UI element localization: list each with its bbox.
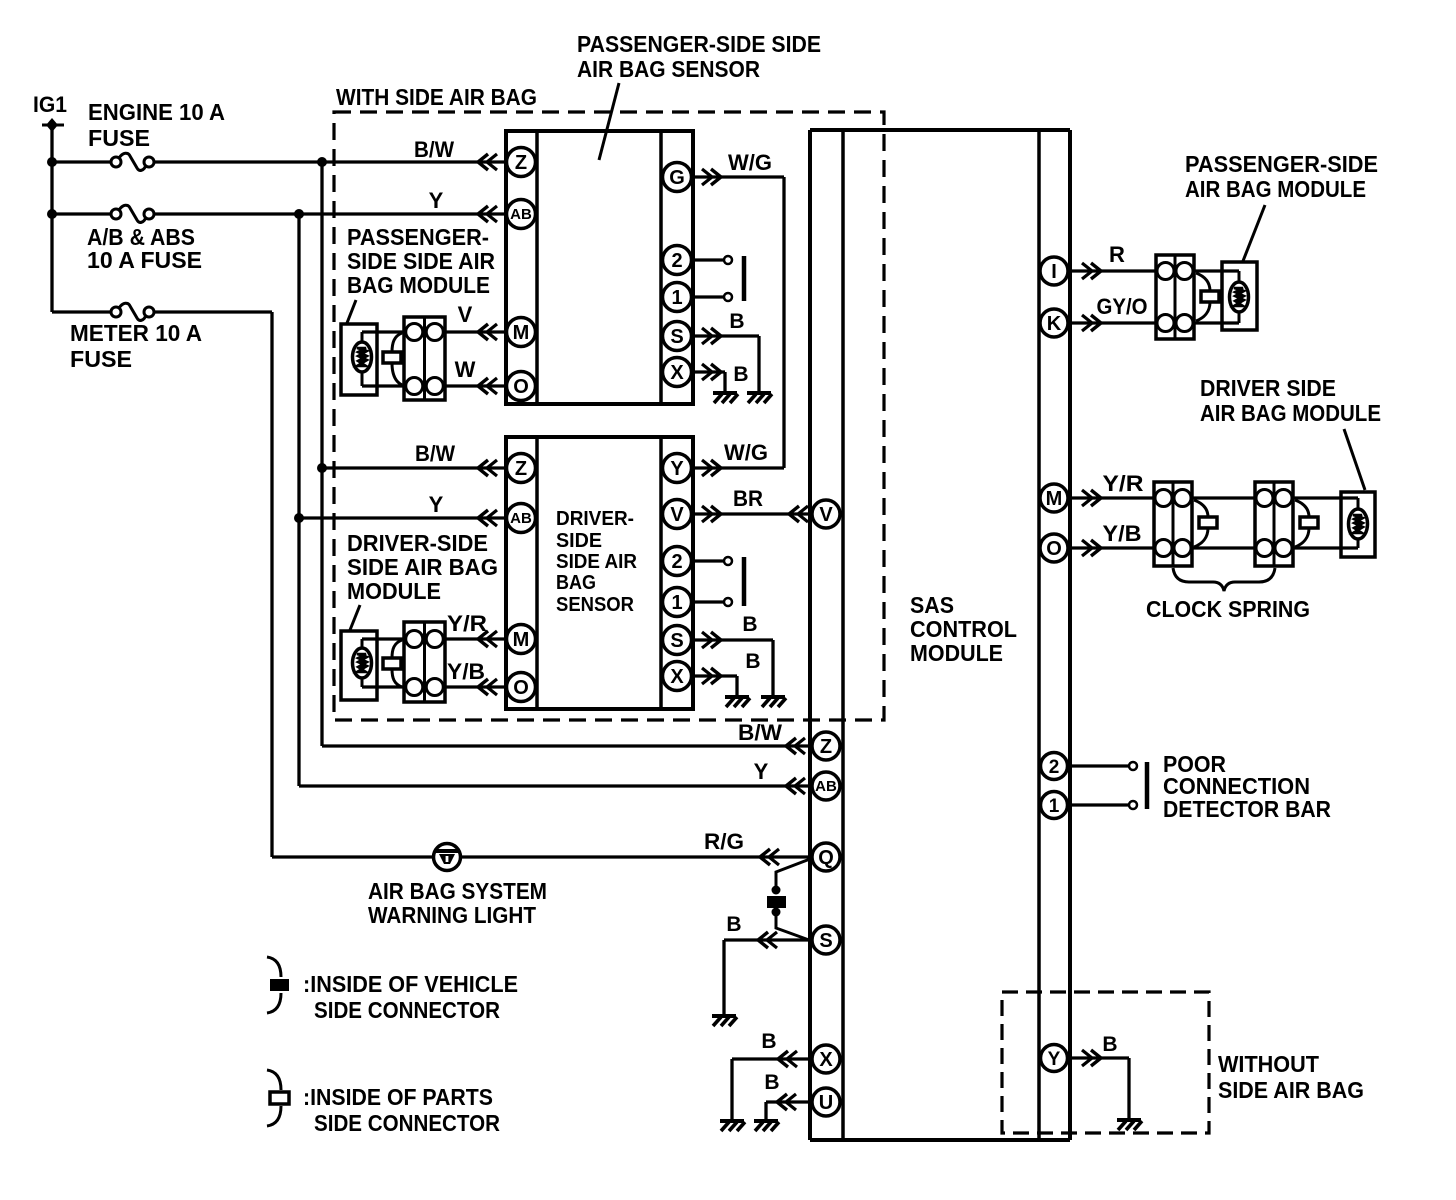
svg-text:Y/B: Y/B [1103,521,1142,546]
label wire R/G [704,829,744,854]
pin O SAS [1040,534,1068,562]
svg-text:B: B [761,1030,776,1053]
pin V driver sensor [663,500,692,529]
pin V SAS [812,500,840,528]
detector bar passenger sensor [742,256,747,301]
wire to driver air bag module bottom [1293,546,1358,549]
connector driver module [404,622,445,702]
SAS control module outline [810,130,1070,1140]
label wire W/G driver [724,440,768,465]
node IG1 terminal [42,118,64,132]
svg-text:SIDE SIDE AIR: SIDE SIDE AIR [347,248,495,274]
svg-text:IG1: IG1 [33,92,67,117]
pin S passenger sensor [663,322,692,351]
svg-text:Y/R: Y/R [1103,471,1144,496]
svg-text:V: V [670,504,684,526]
svg-text:METER 10 A: METER 10 A [70,320,202,346]
svg-text:O: O [1046,538,1062,560]
label wire B SAS Y [1102,1033,1117,1056]
label POOR CONNECTION DETECTOR BAR [1163,751,1331,822]
wire RG row right of lamp [460,855,812,858]
wire ab fuse row left [52,212,112,215]
wire SAS M to clock spring [1069,496,1154,499]
pin AB driver sensor [507,504,536,533]
svg-text:Q: Q [818,847,834,869]
driver module box [341,631,377,700]
label A/B & ABS 10 A FUSE [87,224,202,273]
arrow out of SAS O [1082,540,1101,556]
wire WG vertical [782,177,785,468]
label wire BR [733,486,763,511]
pin S driver sensor [663,626,692,655]
svg-text:ENGINE 10 A: ENGINE 10 A [88,99,225,125]
svg-text:G: G [669,167,685,189]
wire connector to sensor O [445,384,506,387]
wire engine fuse row left [52,160,112,163]
svg-text:MODULE: MODULE [347,578,441,604]
arrow into driver sensor M [478,631,497,647]
parts connector symbol driver module [383,640,402,687]
wire SAS I to connector [1069,269,1156,272]
fuse ENGINE 10 A [111,153,154,170]
wire ab fuse row to sensor AB [153,212,506,215]
svg-text:B: B [733,363,748,386]
wire passenger S to ground [691,336,759,392]
label wire R [1109,242,1125,267]
svg-text:SAS: SAS [910,592,954,618]
svg-text:SIDE CONNECTOR: SIDE CONNECTOR [314,1110,500,1136]
label PASSENGER-SIDE AIR BAG MODULE right [1185,151,1378,202]
label wire B driver S [742,613,757,636]
ground passenger S [747,393,772,403]
svg-text:MODULE: MODULE [910,640,1003,666]
pin G passenger sensor [663,163,692,192]
svg-text:AIR BAG SENSOR: AIR BAG SENSOR [577,56,760,82]
wire bw to driver sensor Z [322,466,506,469]
wire connector to driver sensor M [445,637,506,640]
pin 2 SAS [1041,753,1068,780]
label SAS CONTROL MODULE [910,592,1017,666]
svg-text:CONTROL: CONTROL [910,616,1017,642]
arrow out of driver Y [702,460,721,476]
label ENGINE 10 A FUSE [88,99,225,151]
svg-text:Z: Z [515,152,527,174]
detector bar SAS [1145,762,1150,809]
svg-text:W/G: W/G [724,440,768,465]
clock spring connector 2 [1255,482,1293,566]
svg-text:CLOCK SPRING: CLOCK SPRING [1146,596,1310,622]
brace clock spring [1173,568,1275,591]
ground passenger X [713,393,738,403]
svg-text:BR: BR [733,486,763,511]
vehicle connector symbol QS [767,896,786,908]
wire engine fuse row to sensor Z [153,160,506,163]
svg-text:U: U [819,1092,833,1114]
svg-text:PASSENGER-: PASSENGER- [347,224,489,250]
wire clock spring link top [1192,496,1255,499]
svg-text:DETECTOR BAR: DETECTOR BAR [1163,796,1331,822]
pin AB passenger sensor [507,200,536,229]
label DRIVER-SIDE SIDE AIR BAG SENSOR inside [556,508,638,616]
wire driver V to SAS V [691,512,812,515]
clock spring connector 1 [1154,482,1192,566]
pin Y SAS [1041,1045,1068,1072]
junction dot ab row x299 [294,209,304,219]
svg-text:SIDE: SIDE [556,530,602,552]
svg-text:S: S [670,326,683,348]
arrow into SAS AB [786,778,805,794]
junction dot engine row x322 [317,157,327,167]
svg-text:B: B [1102,1033,1117,1056]
label wire Y row2 [429,188,444,213]
connector passenger air bag module [1156,255,1194,339]
svg-text:Z: Z [515,458,527,480]
svg-text:X: X [670,666,684,688]
pin O driver sensor [507,673,536,702]
svg-text:BAG: BAG [556,572,596,594]
arrow into passenger sensor Z [478,154,497,170]
wire driver Y to WG vertical [691,466,784,469]
svg-text:AIR BAG SYSTEM: AIR BAG SYSTEM [368,878,547,904]
arrow out of driver S [702,632,721,648]
wire SAS 1 stub [1067,801,1137,809]
svg-text:R: R [1109,242,1125,267]
svg-text:M: M [513,629,530,651]
svg-text:2: 2 [1049,757,1060,778]
pin 2 passenger sensor [663,246,692,275]
svg-text:O: O [513,376,529,398]
svg-text:1: 1 [671,592,682,614]
wire driver S to ground [691,640,773,695]
label wire V [458,302,473,327]
svg-text:Y: Y [429,188,444,213]
label wire B SAS S [726,913,741,936]
wire passenger 2 stub [691,256,732,264]
pin Z passenger sensor [507,148,536,177]
svg-text:B/W: B/W [738,720,782,745]
label wire Y/R left [447,611,487,636]
svg-text:SIDE AIR BAG: SIDE AIR BAG [347,554,498,580]
wire driver squib bottom to connector [362,685,404,688]
power node IG1 label [33,92,67,117]
svg-text:SIDE AIR BAG: SIDE AIR BAG [1218,1077,1364,1103]
svg-text:Y: Y [429,492,444,517]
svg-text:Y/B: Y/B [447,659,485,684]
arrow into SAS Z [786,738,805,754]
svg-text:AB: AB [815,778,837,795]
arrow into SAS S [758,932,777,948]
label DRIVER-SIDE SIDE AIR BAG MODULE [347,530,498,604]
pin X passenger sensor [663,358,692,387]
wire to driver air bag module top [1293,496,1358,499]
parts connector symbol passenger module [383,333,402,385]
parts connector symbol cs1 [1194,500,1217,547]
svg-text:AIR BAG MODULE: AIR BAG MODULE [1200,400,1381,426]
svg-text:M: M [1046,488,1063,510]
label wire GY/O [1097,294,1148,319]
junction dot IG1-engine [47,157,57,167]
pin M passenger sensor [507,318,536,347]
label wire Y row6 [754,759,769,784]
wire SAS 2 stub [1067,762,1137,770]
wire driver 1 stub [691,598,732,606]
svg-text:DRIVER SIDE: DRIVER SIDE [1200,375,1336,401]
pin Z driver sensor [507,454,536,483]
label wire B passenger X [733,363,748,386]
svg-text:PASSENGER-SIDE SIDE: PASSENGER-SIDE SIDE [577,31,821,57]
label wire B driver X [745,650,760,673]
svg-text:V: V [819,504,833,526]
arrow into SAS V [789,506,808,522]
arrow into driver sensor Z [478,460,497,476]
svg-text:Y: Y [670,458,684,480]
svg-text:B: B [742,613,757,636]
pin S SAS [812,926,840,954]
svg-text:Y: Y [754,759,769,784]
svg-text:GY/O: GY/O [1097,294,1148,319]
wire driver 2 stub [691,557,732,565]
dashed box WITHOUT SIDE AIR BAG [1002,992,1209,1133]
wire passenger X to ground [691,372,725,392]
svg-text:10 A FUSE: 10 A FUSE [87,247,202,273]
ground SAS Y [1117,1120,1142,1130]
wire SAS X to ground [732,1059,812,1119]
wire squib bottom to connector [362,384,404,387]
wire SAS U to ground [766,1102,812,1119]
svg-text:B/W: B/W [414,137,454,162]
svg-text::INSIDE OF PARTS: :INSIDE OF PARTS [303,1084,493,1110]
label WITHOUT SIDE AIR BAG [1218,1051,1364,1103]
dashed box WITH SIDE AIR BAG [334,112,884,720]
svg-text:O: O [513,677,529,699]
svg-text:DRIVER-: DRIVER- [556,508,634,530]
svg-text:1: 1 [1049,796,1060,817]
svg-text:PASSENGER-SIDE: PASSENGER-SIDE [1185,151,1378,177]
wire G to WG vertical [691,175,784,178]
svg-text:I: I [1051,261,1057,283]
label wire B SAS U [764,1071,779,1094]
wire SAS K to connector [1069,321,1156,324]
callout line passenger module [347,300,356,323]
arrow out of passenger S [702,328,721,344]
svg-text:B: B [726,913,741,936]
wire meter fuse row left [52,310,112,313]
passenger air bag module box [1222,262,1257,330]
svg-text:SIDE AIR: SIDE AIR [556,551,638,573]
callout line passenger air bag module [1243,205,1265,261]
svg-text:WARNING LIGHT: WARNING LIGHT [368,902,536,928]
pin U SAS [812,1088,840,1116]
ground SAS X [720,1121,745,1131]
svg-text:FUSE: FUSE [88,125,150,151]
squib passenger module [353,332,372,386]
detector bar driver sensor [742,557,747,606]
svg-text:V: V [458,302,473,327]
legend parts side connector symbol [267,1070,289,1126]
wire driver squib top to connector [362,637,404,640]
junction dot y driver row [294,513,304,523]
svg-text:AIR BAG MODULE: AIR BAG MODULE [1185,176,1366,202]
svg-text:Y: Y [1048,1049,1061,1070]
squib driver module [353,639,372,687]
junction dot above vehicle connector [772,886,781,895]
parts connector symbol pab [1196,273,1219,321]
pin 1 SAS [1041,792,1068,819]
label wire B passenger S [729,310,744,333]
label INSIDE OF VEHICLE SIDE CONNECTOR [303,971,518,1023]
svg-text:S: S [819,930,832,952]
wire connector to sensor M [445,330,506,333]
lamp air bag warning light [434,844,461,871]
label wire W/G passenger [728,150,772,175]
arrow out of driver V [702,506,721,522]
label wire B SAS X [761,1030,776,1053]
label wire B/W row3 [415,441,455,466]
junction dot bw driver row [317,463,327,473]
label DRIVER SIDE AIR BAG MODULE [1200,375,1381,426]
svg-text:WITH SIDE AIR BAG: WITH SIDE AIR BAG [336,84,537,110]
svg-text:WITHOUT: WITHOUT [1218,1051,1319,1077]
svg-text:DRIVER-SIDE: DRIVER-SIDE [347,530,488,556]
arrow out of driver X [702,668,721,684]
ground SAS S [712,1016,737,1026]
pin X driver sensor [663,662,692,691]
ground SAS U [754,1121,779,1131]
pin M SAS [1040,484,1068,512]
arrow into driver sensor O [478,679,497,695]
pin Z SAS [812,732,840,760]
svg-text:1: 1 [671,287,682,309]
pin Q SAS [812,843,840,871]
label AIR BAG SYSTEM WARNING LIGHT [368,878,547,928]
label wire Y/B left [447,659,485,684]
svg-text:FUSE: FUSE [70,346,132,372]
pin 1 driver sensor [663,588,692,617]
passenger side air bag sensor box [506,131,693,404]
wire Q diagonal to connector [776,859,810,886]
pin K SAS [1040,309,1068,337]
label wire W [455,357,476,382]
label wire Y row5 [429,492,444,517]
pin O passenger sensor [507,372,536,401]
wire connector to S diagonal [776,913,809,940]
wire clock spring link bottom [1192,546,1255,549]
pin 2 driver sensor [663,547,692,576]
svg-text:X: X [670,362,684,384]
label wire B/W row4 [738,720,782,745]
arrow into driver sensor AB [478,510,497,526]
svg-text:X: X [819,1049,833,1071]
connector passenger module [404,317,445,400]
junction dot IG1-ab [47,209,57,219]
svg-text:B: B [764,1071,779,1094]
wire y feeder vertical x299 [297,214,300,786]
arrow out of SAS I [1082,263,1101,279]
label WITH SIDE AIR BAG [336,84,537,110]
svg-text:2: 2 [671,551,682,573]
parts connector symbol cs2 [1295,500,1318,547]
driver air bag module box [1341,492,1375,557]
callout line sensor label [599,83,619,160]
svg-text:BAG MODULE: BAG MODULE [347,272,490,298]
pin I SAS [1040,257,1068,285]
driver side air bag sensor box [506,437,693,709]
wire RG row left of lamp [272,855,434,858]
arrow into SAS Q [760,849,779,865]
wire SAS S to ground [724,940,812,1014]
legend vehicle side connector symbol [267,957,289,1013]
passenger module box [341,324,377,395]
svg-text:M: M [513,322,530,344]
arrow out of G [702,169,721,185]
arrow out of passenger X [702,364,721,380]
svg-text:2: 2 [671,250,682,272]
svg-text:AB: AB [510,510,532,527]
ground driver S [761,697,786,707]
wire meter fuse row to corner [153,310,272,313]
arrow out of SAS Y [1082,1050,1101,1066]
label PASSENGER-SIDE SIDE AIR BAG MODULE [347,224,495,298]
svg-text:Y/R: Y/R [447,611,487,636]
wire y to driver sensor AB [299,516,506,519]
label METER 10 A FUSE [70,320,202,372]
svg-text:B: B [745,650,760,673]
label PASSENGER-SIDE SIDE AIR BAG SENSOR [577,31,821,82]
svg-text:B: B [729,310,744,333]
pin X SAS [812,1045,840,1073]
wire connector to driver sensor O [445,685,506,688]
svg-text:AB: AB [510,206,532,223]
arrow into passenger sensor AB [478,206,497,222]
pin Y driver sensor [663,454,692,483]
wire y bottom run to SAS AB [299,784,812,787]
squib passenger air bag module [1230,271,1249,323]
svg-text:W: W [455,357,476,382]
svg-text:S: S [670,630,683,652]
arrow out of SAS K [1082,315,1101,331]
wire meter vertical drop [270,312,273,857]
svg-text:SENSOR: SENSOR [556,594,635,616]
wire connector to pab module bottom [1194,321,1239,324]
svg-text:Z: Z [820,736,832,758]
label wire Y/B right [1103,521,1142,546]
ground driver X [725,697,750,707]
wire bw bottom run to SAS Z [322,744,812,747]
wire connector to pab module top [1194,269,1239,272]
svg-text:SIDE CONNECTOR: SIDE CONNECTOR [314,997,500,1023]
pin M driver sensor [507,625,536,654]
wire SAS Y to ground [1067,1058,1129,1118]
arrow into SAS U [777,1094,796,1110]
squib driver air bag module [1349,498,1368,548]
svg-text:R/G: R/G [704,829,744,854]
wire IG1 vertical bus [50,125,53,312]
label CLOCK SPRING [1146,596,1310,622]
arrow into sensor O [478,378,497,394]
label INSIDE OF PARTS SIDE CONNECTOR [303,1084,500,1136]
arrow into SAS X [778,1051,797,1067]
arrow out of SAS M [1082,490,1101,506]
wire squib top to connector [362,330,404,333]
callout line driver module [350,605,360,630]
arrow into sensor M [478,324,497,340]
svg-text::INSIDE OF VEHICLE: :INSIDE OF VEHICLE [303,971,518,997]
pin 1 passenger sensor [663,283,692,312]
wire SAS O to clock spring [1069,546,1154,549]
label wire Y/R right [1103,471,1144,496]
wire driver X to ground [691,676,737,695]
pin AB SAS [812,772,840,800]
